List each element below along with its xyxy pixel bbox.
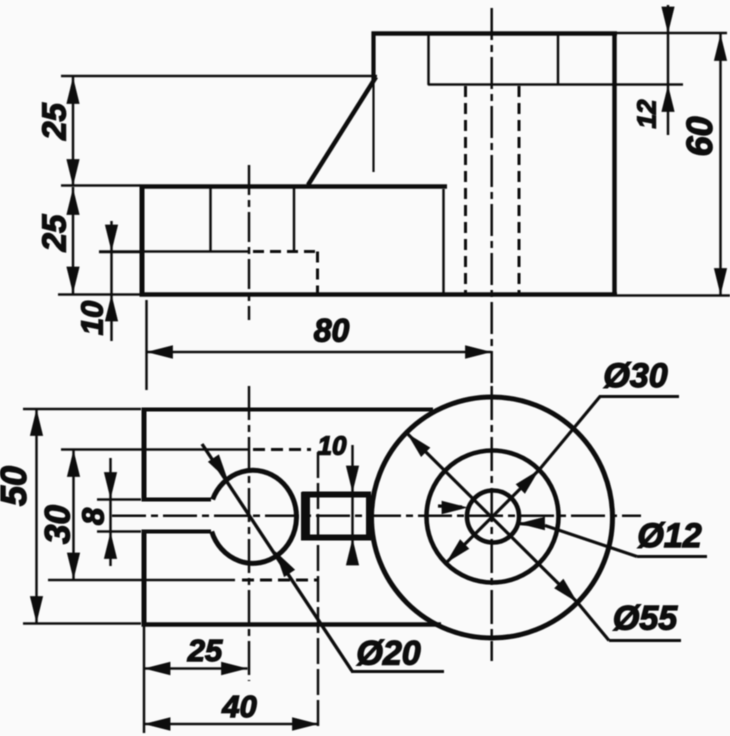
dim D55 underline <box>609 639 681 642</box>
keyhole recess right silhouette <box>293 187 296 251</box>
counterbore floor and extension to 12-dim <box>428 83 683 86</box>
svg-text:Ø30: Ø30 <box>603 357 667 395</box>
svg-text:Ø20: Ø20 <box>356 635 420 673</box>
cylinder top edge <box>372 31 618 36</box>
dim 8 line <box>109 458 112 566</box>
top edge extension line to 60-dim <box>617 32 727 35</box>
svg-text:Ø12: Ø12 <box>637 517 701 555</box>
dim 30 line <box>72 450 75 581</box>
bottom edge extension line left <box>58 293 140 296</box>
dim D55 leader <box>578 603 610 641</box>
dim 25 plan line <box>144 667 248 670</box>
dim D30 underline <box>599 395 679 398</box>
svg-text:60: 60 <box>679 116 720 156</box>
svg-text:30: 30 <box>39 505 78 544</box>
circle centerline plan <box>490 386 493 661</box>
slot upper extension left <box>97 498 141 501</box>
dim D20 diagonal <box>202 444 352 671</box>
slot lower edge <box>142 530 212 534</box>
slot upper edge <box>142 498 212 502</box>
dim 25 lower line <box>72 187 75 294</box>
dim D30 diagonal <box>446 470 539 563</box>
slot end extension line vertical <box>317 452 320 726</box>
plate top edge plan <box>142 408 434 412</box>
rib inclined edge <box>308 77 376 185</box>
hidden slot upper line <box>61 448 250 451</box>
plate top edge <box>140 184 448 189</box>
plate left edge extension down <box>143 626 146 733</box>
svg-text:12: 12 <box>632 99 662 128</box>
plate left edge plan lower <box>142 532 147 627</box>
rib apex extension line <box>61 75 377 78</box>
dim D20 underline <box>351 670 444 673</box>
plate top extension line left <box>61 184 140 187</box>
cylinder centerline front <box>490 8 493 386</box>
dim 10 line <box>110 221 113 341</box>
hidden slot lower line <box>48 579 235 582</box>
svg-text:25: 25 <box>36 214 73 252</box>
svg-text:10: 10 <box>318 431 347 461</box>
neck left cap <box>301 492 310 541</box>
dim D12 left arrow line <box>438 506 462 507</box>
dim D55 diagonal <box>407 433 578 602</box>
dim D30 leader <box>539 397 600 471</box>
svg-text:25: 25 <box>187 633 223 668</box>
dim 80 line <box>147 351 492 354</box>
svg-text:8: 8 <box>76 507 111 525</box>
plate bottom edge plan <box>142 622 442 627</box>
svg-text:40: 40 <box>221 689 256 724</box>
plate-cylinder intersection edge <box>442 189 445 293</box>
dim 10 extension line <box>99 251 140 254</box>
keyhole recess left silhouette <box>209 187 212 251</box>
svg-text:80: 80 <box>314 313 350 349</box>
circle D55 <box>372 397 613 638</box>
svg-text:Ø55: Ø55 <box>613 600 678 638</box>
circle D30 <box>427 451 559 583</box>
horizontal centerline plan <box>112 515 641 518</box>
svg-text:10: 10 <box>75 301 110 335</box>
plate left edge <box>140 185 145 296</box>
dim 40 line <box>144 723 319 726</box>
keyhole circle arc <box>212 470 297 563</box>
hidden slot lower dashes <box>242 579 317 582</box>
T-slot floor hidden line <box>253 250 317 253</box>
bottom edge of plate and cylinder <box>140 292 618 297</box>
plate left edge plan upper <box>142 408 147 500</box>
dim D12 leader <box>545 526 637 557</box>
plate top extension line left <box>23 408 141 411</box>
svg-text:25: 25 <box>36 103 73 141</box>
svg-text:50: 50 <box>0 466 34 506</box>
dim neck 10 line <box>351 445 354 560</box>
T-slot floor visible line <box>99 250 250 253</box>
plate bottom extension line left <box>23 622 141 625</box>
hidden hole left line <box>464 86 467 294</box>
circle D12 <box>467 491 519 543</box>
neck bottom edge <box>302 535 371 541</box>
cylinder left edge behind rib <box>372 80 374 172</box>
dim D12 underline <box>637 555 707 558</box>
neck top edge <box>302 492 371 498</box>
slot lower extension left <box>97 530 141 533</box>
T-slot end hidden line <box>316 252 319 295</box>
bottom edge extension line to 60-dim <box>617 294 730 297</box>
cylinder right edge <box>612 32 617 297</box>
dim 50 line <box>35 409 38 624</box>
cylinder left edge upper <box>371 32 375 81</box>
hidden hole right line <box>518 86 521 294</box>
dim 80 left extension line <box>145 300 148 390</box>
dim 60 line <box>719 33 722 296</box>
keyhole centerline plan <box>248 386 251 681</box>
neck right edge <box>366 494 371 539</box>
dim 12 line <box>667 5 670 135</box>
keyhole centerline front <box>248 165 251 320</box>
dim 25 upper line <box>72 76 75 186</box>
hidden slot upper dashes <box>253 448 311 451</box>
counterbore right wall <box>557 34 560 86</box>
dim D12 right arrow line <box>519 524 546 526</box>
counterbore left wall <box>427 34 430 86</box>
